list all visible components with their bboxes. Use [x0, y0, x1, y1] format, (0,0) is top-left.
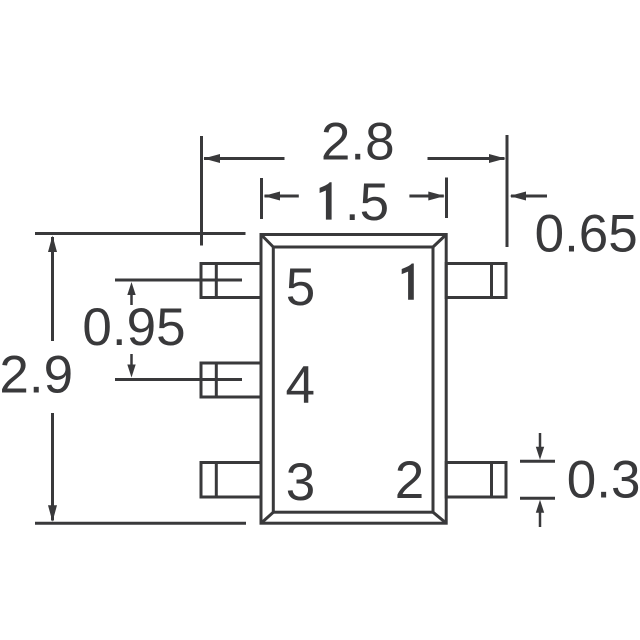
bevel corner top-right [433, 235, 446, 248]
dim 0.65 arrowhead [510, 192, 527, 201]
dim 0.3 lower arrowhead [536, 500, 544, 513]
pin 1 foot divider [490, 264, 493, 298]
pin 3 lead (bottom left) [201, 463, 261, 498]
svg-text:2: 2 [395, 451, 424, 510]
dim 1.5 left extension line [260, 178, 263, 219]
pin 4 lead (middle left) [201, 363, 261, 397]
dim 2.8 right extension line [506, 135, 509, 247]
svg-text:5: 5 [286, 258, 315, 317]
svg-text:2.8: 2.8 [321, 113, 395, 172]
dim 0.3 lower arrow stem [539, 512, 542, 527]
dim 2.8 right arrowhead [489, 154, 506, 163]
dim 2.9 top arrowhead [48, 236, 57, 253]
dim 0.95 upper arrowhead [127, 282, 135, 295]
dim 2.8 dimension line right segment [428, 157, 505, 160]
pin number 1 (custom arial-style) [402, 264, 414, 300]
dim 2.9 bottom extension line [35, 522, 246, 525]
dim 2.9 dimension line lower segment [51, 413, 54, 521]
pin 4 foot divider [215, 363, 218, 397]
dim 0.95 lower arrowhead [127, 365, 135, 378]
label 1.5 digit 1 (custom arial-style) [320, 182, 332, 219]
dim 1.5 dimension line left segment [265, 195, 299, 198]
svg-text:4: 4 [286, 356, 315, 415]
dim 1.5 left arrowhead [264, 192, 281, 201]
dim 0.95 bottom extension line [115, 378, 242, 381]
pin 3 foot divider [215, 463, 218, 498]
dim 2.9 bottom arrowhead [48, 505, 57, 522]
pin 5 foot divider [215, 264, 218, 298]
dim 2.8 left arrowhead [204, 154, 221, 163]
dim 2.9 top extension line [35, 232, 246, 235]
svg-text:0.3: 0.3 [567, 451, 640, 510]
svg-text:0.95: 0.95 [82, 298, 185, 357]
dim 0.65 dimension line [511, 195, 547, 198]
dim 0.3 upper arrowhead [536, 447, 544, 460]
bevel corner top-left [261, 235, 273, 248]
pin 1 lead (top right) [446, 264, 506, 298]
package body inner outline [273, 247, 433, 512]
dim 0.3 upper tick [520, 460, 555, 463]
bevel corner bottom-right [433, 512, 446, 523]
dim 1.5 dimension line right segment [409, 195, 443, 198]
dim 0.3 upper arrow stem [539, 433, 542, 448]
svg-text:0.65: 0.65 [535, 204, 638, 263]
pin 2 foot divider [490, 463, 493, 498]
dim 2.8 dimension line left segment [204, 157, 285, 160]
package body outer outline [261, 235, 446, 524]
dim 1.5 right arrowhead [428, 192, 445, 201]
dim 2.8 left extension line [200, 136, 203, 246]
bevel corner bottom-left [261, 512, 273, 523]
svg-text:.5: .5 [345, 173, 389, 232]
dim 1.5 right extension line [445, 178, 448, 219]
dim 0.3 lower tick [520, 497, 555, 500]
dim 2.9 dimension line upper segment [51, 237, 54, 341]
pin 5 lead (top left) [201, 264, 261, 298]
dim 0.95 upper arrow stem [130, 294, 133, 305]
svg-text:3: 3 [286, 453, 315, 512]
dim 0.95 lower arrow stem [130, 354, 133, 366]
svg-text:2.9: 2.9 [0, 346, 73, 405]
dim 0.95 top extension line [115, 279, 242, 282]
pin 2 lead (bottom right) [446, 463, 506, 498]
